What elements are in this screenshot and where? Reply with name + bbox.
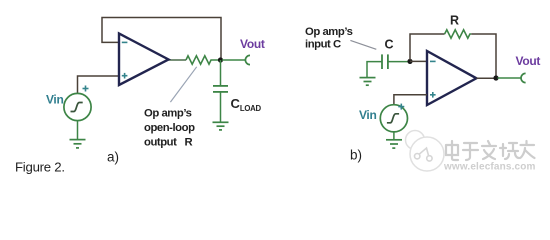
wire cap to ground a bbox=[220, 92, 222, 122]
plus mark op-amp b bbox=[430, 92, 436, 98]
wire feedback loop a bbox=[102, 18, 221, 60]
source waveform a bbox=[71, 103, 83, 112]
wire Vin to + input a bbox=[78, 76, 120, 93]
svg-text:Op amp’s: Op amp’s bbox=[144, 108, 192, 120]
子 bbox=[463, 143, 478, 160]
svg-text:Vin: Vin bbox=[46, 93, 64, 107]
svg-text:b): b) bbox=[350, 148, 362, 163]
source Vin a bbox=[64, 93, 91, 120]
capacitor C bbox=[382, 54, 388, 69]
capacitor CLOAD bbox=[213, 86, 228, 92]
svg-text:input C: input C bbox=[305, 38, 341, 50]
ground under CLOAD bbox=[213, 122, 229, 130]
wire feedback right vertical b bbox=[471, 34, 496, 77]
wire Vin b to + input bbox=[394, 95, 427, 105]
terminal Vout b bbox=[521, 73, 526, 82]
resistor R (open-loop output R) bbox=[186, 56, 219, 64]
wire op-amp output b bbox=[476, 77, 494, 79]
node junction output b bbox=[493, 75, 498, 80]
烧 bbox=[500, 143, 519, 159]
ground under C input bbox=[360, 78, 376, 86]
wire node to op-amp minus b bbox=[410, 60, 427, 62]
source waveform b bbox=[387, 114, 399, 123]
wire op-amp output lead a bbox=[169, 59, 187, 61]
ground under Vin b bbox=[386, 140, 402, 148]
minus mark op-amp a bbox=[122, 41, 128, 43]
resistor R feedback bbox=[445, 30, 472, 38]
minus mark op-amp b bbox=[430, 60, 436, 62]
watermark logo trace bbox=[415, 148, 433, 161]
svg-text:Figure 2.: Figure 2. bbox=[15, 160, 65, 175]
op-amp U2 bbox=[427, 51, 476, 105]
source Vin b bbox=[380, 105, 407, 132]
svg-text:Vout: Vout bbox=[240, 37, 265, 51]
pointer line b bbox=[350, 40, 376, 49]
wire left of capacitor C bbox=[367, 62, 382, 77]
svg-text:Op amp’s: Op amp’s bbox=[305, 26, 353, 38]
svg-text:C: C bbox=[385, 38, 394, 52]
svg-text:R: R bbox=[450, 13, 459, 27]
wire capacitor to node b bbox=[388, 61, 408, 63]
电 bbox=[446, 141, 458, 160]
svg-text:open-loop: open-loop bbox=[144, 122, 195, 134]
svg-text:Vin: Vin bbox=[359, 108, 377, 122]
wire feedback left vertical b bbox=[410, 34, 445, 60]
wire source to ground a bbox=[77, 121, 79, 140]
plus mark op-amp a bbox=[122, 73, 128, 79]
svg-text:a): a) bbox=[107, 150, 119, 165]
wire source to ground b bbox=[393, 132, 395, 140]
wire junction to terminal b bbox=[498, 77, 522, 79]
友 bbox=[520, 141, 535, 158]
op-amp U1 bbox=[119, 34, 169, 86]
pointer line a bbox=[170, 67, 196, 102]
svg-text:output R: output R bbox=[144, 136, 192, 148]
plus mark source b bbox=[398, 104, 404, 110]
ground under Vin a bbox=[70, 140, 86, 148]
svg-text:Vout: Vout bbox=[516, 54, 541, 68]
发 bbox=[482, 141, 496, 159]
wire junction to terminal a bbox=[222, 59, 246, 61]
capacitor CLOAD lead bbox=[220, 60, 222, 85]
watermark chinese text bbox=[446, 141, 535, 160]
node junction minus b bbox=[407, 59, 412, 64]
terminal Vout a bbox=[245, 55, 250, 64]
plus mark source a bbox=[83, 86, 89, 92]
svg-text:CLOAD: CLOAD bbox=[231, 96, 262, 113]
watermark logo bubble bbox=[406, 131, 425, 150]
svg-text:www.elecfans.com: www.elecfans.com bbox=[443, 162, 536, 173]
node junction a bbox=[218, 57, 223, 62]
